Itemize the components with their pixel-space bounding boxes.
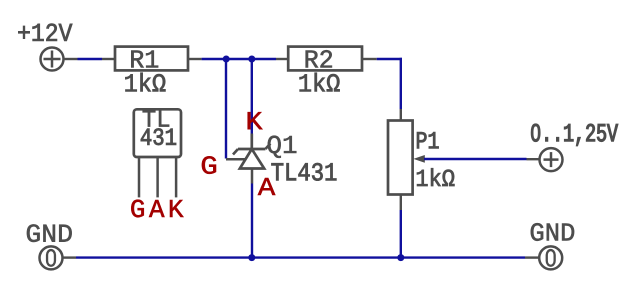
junction node A to bottom rail bbox=[248, 254, 255, 261]
resistor R2 bbox=[276, 47, 377, 71]
value 1kOhm of P1 bbox=[417, 168, 454, 186]
value 1kOhm of R1 bbox=[125, 73, 165, 92]
wire R2 to P1 top bbox=[377, 58, 402, 109]
junction node G-branch top bbox=[223, 56, 230, 63]
wire K-branch vertical bbox=[251, 59, 253, 134]
package drawing TO-92 TL431 bbox=[134, 109, 181, 157]
pin label K of Q1 bbox=[248, 112, 263, 129]
wire G-branch vertical bbox=[225, 59, 227, 159]
terminal +12V bbox=[41, 48, 78, 71]
potentiometer P1 bbox=[388, 109, 425, 210]
pin G of package bbox=[138, 157, 141, 197]
shunt regulator Q1 TL431 symbol bbox=[226, 134, 270, 184]
designator P1 bbox=[417, 132, 438, 148]
wire wiper of P1 to output terminal bbox=[424, 158, 527, 160]
label GND left bbox=[27, 224, 72, 242]
ground terminal left bbox=[40, 246, 77, 269]
wire P1 bottom to bottom rail bbox=[400, 210, 402, 258]
pin K of package bbox=[175, 157, 178, 197]
value TL431 bbox=[272, 163, 337, 181]
junction node P1 to bottom rail bbox=[397, 254, 404, 261]
pin label G of Q1 bbox=[202, 156, 216, 174]
label +12V bbox=[18, 24, 72, 41]
bottom rail wire bbox=[76, 256, 525, 258]
label 0..1,25V bbox=[531, 124, 618, 146]
wire R1 to R2 bbox=[202, 58, 276, 60]
designator Q1 bbox=[268, 136, 297, 158]
junction node K-branch top bbox=[248, 56, 255, 63]
ground terminal right bbox=[525, 246, 562, 269]
pin A of package bbox=[156, 157, 159, 197]
label GND right bbox=[531, 223, 574, 241]
wire A of Q1 to bottom rail bbox=[251, 184, 253, 259]
value 1kOhm of R2 bbox=[300, 73, 340, 92]
resistor R1 bbox=[102, 47, 202, 71]
wire +12V to R1 bbox=[78, 58, 103, 60]
pin label K of package bbox=[170, 200, 184, 217]
terminal output 0..1,25V bbox=[527, 148, 563, 171]
pin label G of package bbox=[131, 200, 144, 218]
pin label A of package bbox=[149, 200, 165, 217]
pin label A of Q1 bbox=[258, 178, 276, 195]
